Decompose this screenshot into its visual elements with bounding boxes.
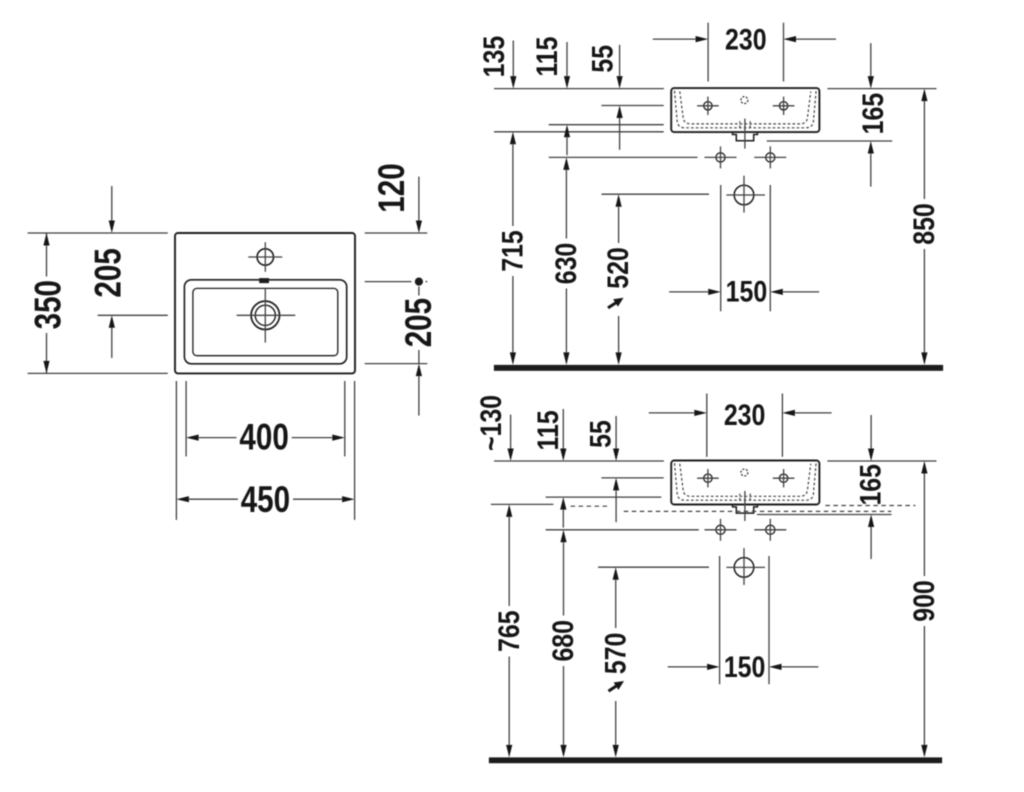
svg-text:715: 715 bbox=[495, 230, 529, 272]
svg-text:150: 150 bbox=[724, 650, 766, 684]
svg-text:680: 680 bbox=[546, 620, 580, 662]
svg-text:115: 115 bbox=[531, 410, 565, 450]
svg-text:205: 205 bbox=[88, 248, 129, 297]
svg-text:900: 900 bbox=[907, 580, 941, 622]
svg-text:55: 55 bbox=[585, 45, 619, 73]
svg-text:400: 400 bbox=[239, 417, 288, 458]
svg-text:450: 450 bbox=[241, 480, 290, 521]
svg-text:150: 150 bbox=[726, 274, 768, 308]
svg-text:115: 115 bbox=[530, 37, 564, 77]
svg-text:850: 850 bbox=[907, 203, 941, 245]
svg-text:630: 630 bbox=[549, 243, 583, 285]
svg-text:570: 570 bbox=[598, 633, 632, 675]
svg-text:350: 350 bbox=[29, 280, 70, 329]
svg-text:520: 520 bbox=[601, 247, 635, 289]
svg-text:135: 135 bbox=[477, 36, 511, 78]
svg-text:765: 765 bbox=[492, 610, 526, 652]
svg-text:230: 230 bbox=[725, 22, 767, 56]
svg-text:120: 120 bbox=[372, 163, 413, 212]
svg-text:230: 230 bbox=[724, 398, 766, 432]
svg-text:205: 205 bbox=[399, 298, 440, 347]
svg-text:55: 55 bbox=[583, 420, 617, 448]
svg-text:165: 165 bbox=[853, 464, 887, 506]
svg-text:165: 165 bbox=[856, 93, 890, 135]
svg-text:~130: ~130 bbox=[474, 395, 508, 451]
